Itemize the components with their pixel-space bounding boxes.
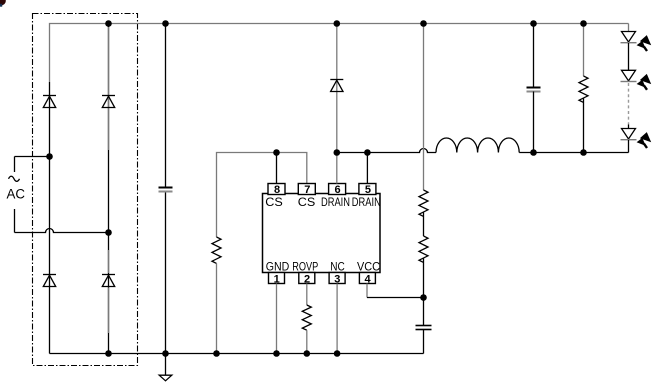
node rail CS resistor [213, 350, 220, 357]
wire CS net horizontal [217, 153, 307, 238]
node rail right bridge [105, 350, 112, 357]
node rail pin1 [273, 350, 280, 357]
wire main bus vertical [165, 24, 167, 354]
wire pin5 lead [366, 153, 368, 184]
node AC line to bridge [46, 153, 53, 160]
inductor L1 [436, 138, 519, 153]
resistor startup upper [419, 190, 428, 216]
diode bottom-left of bridge [43, 275, 56, 287]
svg-text:4: 4 [365, 273, 372, 285]
wire pin4 VCC lead [366, 284, 368, 298]
diode bottom-right of bridge [102, 275, 115, 287]
svg-text:ROVP: ROVP [292, 262, 318, 274]
IC U1 controller body [263, 194, 381, 273]
svg-text:NC: NC [330, 262, 345, 274]
pin 6 box [329, 184, 346, 196]
wire VCC column upper [423, 24, 425, 191]
LED D2 [621, 70, 637, 81]
bridge rectifier dashed enclosure [33, 14, 138, 366]
node AC neutral to bridge [105, 229, 112, 236]
svg-text:6: 6 [335, 184, 341, 196]
pin 8 box [268, 184, 285, 196]
svg-text:DRAIN: DRAIN [352, 197, 381, 209]
AC source symbol and label [7, 157, 26, 233]
node rail main bus [162, 350, 169, 357]
wire right bridge leg [108, 24, 110, 354]
svg-text:GND: GND [266, 262, 290, 274]
pin 4 box [359, 273, 375, 286]
wire dashed continuation of LED string [628, 83, 630, 125]
wire output capacitor branch lower [533, 92, 535, 153]
svg-text:CS: CS [265, 197, 283, 209]
wire output capacitor branch upper [533, 24, 535, 88]
LED D3 emission arrows [637, 132, 652, 148]
capacitor output [527, 88, 541, 92]
pin 2 box [299, 273, 315, 286]
LED D1 emission arrows [637, 35, 652, 51]
wire bleeder resistor branch upper [583, 24, 585, 77]
capacitor bulk input [159, 188, 173, 192]
pin 1 box [269, 273, 285, 286]
wire left bridge leg [49, 82, 51, 354]
node rail ROVP [304, 350, 311, 357]
LED D2 emission arrows [637, 74, 652, 90]
wire top rail [50, 24, 629, 83]
svg-text:8: 8 [274, 184, 280, 196]
wire freewheel diode branch [336, 24, 338, 153]
wire LED string top lead [628, 24, 630, 33]
wire pin1 GND lead to rail [276, 284, 278, 354]
node top rail output capacitor [530, 20, 537, 27]
node rail pin3 [334, 350, 341, 357]
node top rail main bus [162, 20, 169, 27]
resistor ROVP [302, 305, 311, 330]
node output wire bleeder [580, 149, 587, 156]
pin 7 box [298, 184, 315, 196]
node CS wire pin8 [273, 149, 280, 156]
ground [159, 354, 172, 381]
wire CS resistor to ground rail [216, 263, 218, 353]
diode top-right of bridge [102, 96, 115, 108]
node top rail VCC column [420, 20, 427, 27]
resistor CS sense [212, 237, 221, 263]
svg-text:7: 7 [304, 184, 310, 196]
wire startup resistor to VCC node [423, 258, 425, 297]
LED D3 [621, 129, 637, 140]
wire between startup resistors [423, 212, 425, 236]
node top rail bleeder [580, 20, 587, 27]
wire LED string bottom lead [628, 140, 630, 153]
node switch net pin6 [334, 149, 341, 156]
wire VCC node to capacitor [423, 298, 425, 326]
wire pin6 lead [336, 153, 338, 184]
wire AC line terminal to left bridge node [15, 156, 50, 158]
wire VCC capacitor to rail [423, 330, 425, 354]
wire right bridge leg gray segments [108, 27, 110, 333]
node switch net pin5 [364, 149, 371, 156]
pin 5 box [359, 184, 376, 196]
wire bleeder resistor branch lower [583, 98, 585, 152]
wire inductor to output node [519, 152, 628, 154]
wire pin3 NC lead to rail [336, 284, 338, 354]
diode freewheel [330, 80, 343, 92]
node top rail right bridge [105, 20, 112, 27]
svg-text:AC: AC [7, 186, 26, 201]
node output wire capacitor [530, 149, 537, 156]
wire LED D1 to D2 [628, 43, 630, 70]
wire bottom rail [50, 353, 424, 355]
wire AC neutral terminal to right bridge node with hop [15, 229, 109, 233]
wire ROVP resistor to rail [306, 330, 308, 353]
svg-text:CS: CS [298, 197, 316, 209]
svg-text:5: 5 [365, 184, 371, 196]
svg-text:VCC: VCC [357, 262, 380, 274]
capacitor VCC [416, 326, 432, 330]
pin 3 box [329, 273, 345, 286]
node VCC junction [420, 294, 427, 301]
resistor startup lower [419, 236, 428, 262]
wire switch node to inductor with hop [337, 149, 436, 153]
LED D1 [621, 32, 637, 43]
node top rail freewheel branch [334, 20, 341, 27]
diode top-left of bridge [43, 96, 56, 108]
svg-text:DRAIN: DRAIN [321, 197, 350, 209]
wire pin8 lead [276, 153, 278, 184]
resistor bleeder [579, 76, 588, 102]
wire pin2 ROVP lead [306, 284, 308, 306]
